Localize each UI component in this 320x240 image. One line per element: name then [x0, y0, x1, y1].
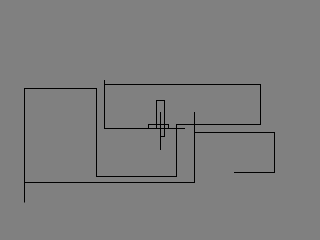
component body: tall narrow rectangle right edge	[164, 100, 166, 137]
wire: middle vertical from upper box bottom down to lower run	[176, 124, 178, 177]
wire: center pin vertical through component	[160, 112, 162, 150]
component body: tall narrow rectangle top edge	[156, 100, 165, 102]
component body: flat pad rectangle right edge	[168, 124, 170, 129]
wire: right box right edge	[274, 132, 276, 173]
wire: upper box top edge	[104, 84, 261, 86]
wire: tall vertical at right of center	[194, 112, 196, 183]
component body: flat pad rectangle top edge	[148, 124, 169, 126]
wire: lower horizontal run from left box to middle vertical	[96, 176, 177, 178]
wire: upper box right edge	[260, 84, 262, 125]
wire: right box bottom edge	[234, 172, 275, 174]
wire: inner horizontal bus under component	[104, 128, 185, 130]
wire: long bottom bus	[24, 182, 195, 184]
wire: left box left edge	[24, 88, 26, 203]
wire: left box right edge	[96, 88, 98, 177]
component body: flat pad rectangle left edge	[148, 124, 150, 129]
wire: upper box bottom edge right part	[176, 124, 261, 126]
component body: tall narrow rectangle bottom edge	[160, 136, 165, 138]
wire: right box top edge	[194, 132, 275, 134]
wire: left box top edge	[24, 88, 97, 90]
wire: upper box left edge with overshoot	[104, 80, 106, 129]
component body: tall narrow rectangle left edge	[156, 100, 158, 129]
